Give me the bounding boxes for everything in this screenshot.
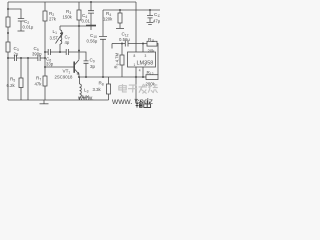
svg-text:3: 3 [145,54,147,58]
svg-text:20k: 20k [148,48,156,53]
svg-text:27k: 27k [49,16,57,21]
svg-text:0.01μ: 0.01μ [23,24,34,29]
svg-text:47μ: 47μ [153,18,160,23]
svg-text:33p: 33p [46,61,54,66]
svg-text:120k: 120k [103,16,113,21]
svg-text:4: 4 [139,68,141,72]
svg-text:150k: 150k [63,14,73,19]
svg-text:8: 8 [134,54,136,58]
svg-text:4p: 4p [65,40,70,45]
svg-text:390p: 390p [32,51,42,56]
svg-text:0.56μ: 0.56μ [87,38,98,43]
svg-text:6.2k: 6.2k [7,83,16,88]
svg-text:1: 1 [134,63,136,67]
svg-text:www.: www. [77,95,94,102]
svg-text:2μ: 2μ [14,51,19,56]
svg-text:3p: 3p [90,64,96,69]
svg-text:3.5T: 3.5T [50,35,59,40]
svg-text:R9 4.7M: R9 4.7M [114,52,120,68]
svg-text:0.01: 0.01 [82,18,91,23]
svg-text:3.3k: 3.3k [93,87,102,92]
svg-text:47k: 47k [35,81,43,86]
svg-text:2SC9018: 2SC9018 [55,74,74,79]
svg-text:www. cndz: www. cndz [111,96,153,106]
svg-text:200k: 200k [146,81,156,86]
svg-text:0.56μ: 0.56μ [119,37,130,42]
svg-text:2: 2 [145,63,147,67]
